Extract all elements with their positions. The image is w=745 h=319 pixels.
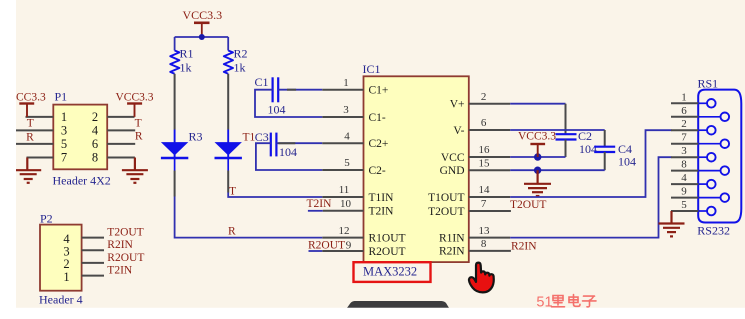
svg-text:7: 7 — [61, 151, 67, 165]
svg-text:104: 104 — [279, 145, 297, 159]
highlight box MAX3232 — [354, 262, 431, 282]
svg-text:5: 5 — [344, 157, 350, 169]
svg-text:9: 9 — [346, 239, 352, 251]
wire C1 left to pin3 — [255, 90, 322, 117]
svg-text:R1IN: R1IN — [439, 232, 465, 244]
svg-text:T: T — [135, 118, 142, 130]
svg-text:R: R — [135, 131, 143, 143]
svg-text:MAX3232: MAX3232 — [363, 264, 417, 278]
svg-text:14: 14 — [479, 184, 491, 196]
svg-text:104: 104 — [618, 155, 636, 169]
svg-text:V+: V+ — [450, 99, 465, 111]
wire top rail — [175, 36, 229, 38]
wire C2 top pin — [565, 104, 567, 135]
svg-text:13: 13 — [479, 225, 491, 237]
svg-text:16: 16 — [479, 144, 491, 156]
svg-text:RS232: RS232 — [697, 224, 730, 238]
IC IC1 MAX3232 body — [363, 62, 469, 262]
wire C4 bottom pin — [604, 152, 606, 170]
P2 inner pin numbers — [63, 232, 70, 284]
svg-text:V-: V- — [453, 125, 464, 137]
svg-text:7: 7 — [681, 132, 687, 144]
svg-text:1k: 1k — [234, 60, 246, 74]
svg-text:VCC: VCC — [441, 152, 465, 164]
diode D1 cathode pin — [174, 171, 176, 197]
IC1 left pin names — [369, 85, 406, 258]
svg-text:R2: R2 — [234, 47, 248, 61]
svg-text:8: 8 — [681, 159, 687, 171]
capacitor C4 — [594, 142, 636, 169]
power VCC3.3 left (clipped) — [16, 91, 46, 117]
svg-text:T2IN: T2IN — [369, 206, 395, 218]
watermark text 51里电子 — [536, 295, 596, 311]
RS1 pin circles right column — [721, 113, 730, 202]
svg-text:1: 1 — [63, 270, 69, 284]
svg-text:C2-: C2- — [369, 165, 386, 177]
svg-text:1: 1 — [343, 77, 349, 89]
svg-text:R2IN: R2IN — [511, 240, 537, 252]
svg-text:C2+: C2+ — [369, 138, 389, 150]
capacitor C2 — [556, 129, 598, 156]
svg-text:R: R — [228, 226, 236, 238]
RS1 pin connect lines — [698, 103, 720, 211]
P2 pin wires — [82, 238, 104, 276]
svg-text:C3: C3 — [255, 130, 269, 144]
svg-text:VCC3.3: VCC3.3 — [182, 8, 222, 22]
connector RS1 DB9 body — [697, 77, 741, 238]
diode D2 cathode pin — [227, 171, 229, 193]
svg-text:10: 10 — [340, 198, 352, 210]
svg-text:1: 1 — [681, 91, 687, 103]
svg-text:3: 3 — [681, 145, 687, 157]
svg-text:R1: R1 — [180, 47, 194, 61]
svg-text:R3: R3 — [189, 129, 203, 143]
RS1 pin numbers — [681, 91, 687, 211]
svg-text:6: 6 — [481, 117, 487, 129]
svg-text:104: 104 — [268, 102, 286, 116]
svg-text:T2IN: T2IN — [307, 198, 333, 210]
svg-text:4: 4 — [344, 130, 350, 142]
wire C2 bottom pin — [565, 140, 567, 158]
RS1 pin circles left column — [707, 99, 716, 215]
svg-text:T1OUT: T1OUT — [428, 192, 464, 204]
ground symbol P1-right — [122, 158, 148, 183]
power VCC3.3 P1-right — [116, 91, 154, 117]
ground symbol RS1 — [659, 211, 685, 236]
white window edge left — [0, 0, 16, 319]
P1 left pin wires — [4, 117, 54, 158]
svg-text:RS1: RS1 — [698, 77, 719, 91]
svg-text:6: 6 — [92, 137, 98, 151]
svg-text:T: T — [229, 186, 236, 198]
svg-text:3: 3 — [343, 104, 349, 116]
svg-text:R2OUT: R2OUT — [369, 246, 406, 258]
svg-text:R2OUT: R2OUT — [308, 240, 345, 252]
wire net T to IC pin11 — [228, 193, 322, 198]
wire net R to IC pin12 — [175, 197, 323, 238]
RS1 pin stubs — [671, 103, 699, 211]
svg-text:GND: GND — [440, 165, 465, 177]
connector P2 body — [39, 212, 83, 307]
svg-text:12: 12 — [339, 225, 350, 237]
IC1 right pin stubs — [469, 104, 511, 251]
ground symbol P1-left — [15, 158, 41, 183]
svg-text:T2OUT: T2OUT — [107, 227, 143, 239]
svg-text:R2IN: R2IN — [439, 246, 465, 258]
svg-text:4: 4 — [681, 172, 687, 184]
svg-text:C1+: C1+ — [369, 85, 389, 97]
diode D2 cathode stub — [227, 158, 229, 171]
diode D1 cathode stub — [174, 158, 176, 171]
svg-text:R2OUT: R2OUT — [107, 252, 144, 264]
svg-text:8: 8 — [481, 238, 487, 250]
wire T2IN stub — [308, 210, 323, 212]
connector P1 body — [53, 90, 111, 188]
power VCC3.3 right — [518, 130, 556, 157]
resistor R2 — [224, 47, 248, 75]
svg-text:T2OUT: T2OUT — [428, 206, 464, 218]
svg-text:VCC3.3: VCC3.3 — [518, 130, 556, 142]
IC1 left pin numbers — [339, 77, 352, 252]
svg-text:P2: P2 — [40, 212, 53, 226]
wire R2 top stub — [227, 37, 229, 51]
svg-text:3: 3 — [61, 124, 67, 138]
svg-text:Header 4: Header 4 — [39, 292, 83, 306]
power VCC3.3 top — [182, 8, 222, 37]
diode D2 — [215, 130, 242, 159]
svg-text:C1: C1 — [255, 75, 269, 89]
svg-text:7: 7 — [481, 198, 487, 210]
wire R1 top stub — [174, 37, 176, 51]
svg-text:T: T — [27, 117, 34, 129]
wire R2OUT stub — [309, 250, 323, 252]
white band bottom — [0, 308, 745, 319]
P1 right pin wires — [107, 117, 135, 158]
ground symbol mid — [524, 170, 551, 196]
resistor R1 — [170, 47, 193, 75]
svg-text:2: 2 — [92, 110, 98, 124]
IC1 right pin names — [428, 99, 465, 258]
svg-text:C1-: C1- — [369, 112, 386, 124]
svg-text:T1IN: T1IN — [369, 192, 395, 204]
dark taskbar fragment — [347, 301, 449, 308]
svg-text:CC3.3: CC3.3 — [16, 91, 46, 103]
wire pin6 to C4 — [510, 129, 605, 131]
wire T1OUT to RS1 pin2 — [510, 130, 671, 197]
wire R1 to D1 — [174, 74, 176, 130]
wire C3 right to pin4 — [276, 142, 322, 144]
svg-text:IC1: IC1 — [363, 62, 381, 76]
wire R1IN to RS1 pin3 — [510, 157, 671, 237]
svg-text:Header 4X2: Header 4X2 — [53, 173, 111, 187]
capacitor C1 — [255, 75, 286, 117]
diode D1 (label R3) — [161, 129, 203, 158]
capacitor C3 right pin — [278, 142, 295, 144]
hand cursor — [469, 263, 494, 293]
svg-text:4: 4 — [92, 124, 99, 138]
wire pin2 to C2 — [510, 103, 565, 105]
svg-text:R: R — [26, 132, 34, 144]
svg-text:9: 9 — [681, 186, 687, 198]
junction top rail — [199, 34, 205, 40]
capacitor C1 right pin — [287, 89, 296, 91]
svg-text:R2IN: R2IN — [107, 239, 133, 251]
wire pin15 GND rail — [510, 169, 605, 171]
svg-text:VCC3.3: VCC3.3 — [116, 91, 154, 103]
wire R2 to D2 — [227, 74, 229, 130]
wire pin16 VCC rail — [510, 156, 565, 158]
svg-text:1k: 1k — [180, 60, 192, 74]
svg-text:T2IN: T2IN — [107, 265, 133, 277]
svg-text:104: 104 — [579, 142, 597, 156]
wire C3 left to pin5 — [256, 143, 322, 170]
wire C4 top pin — [604, 130, 606, 147]
svg-text:T2OUT: T2OUT — [510, 199, 546, 211]
svg-text:8: 8 — [92, 151, 98, 165]
svg-text:1: 1 — [61, 110, 67, 124]
svg-text:T1: T1 — [243, 132, 256, 144]
capacitor C3 — [255, 130, 297, 159]
svg-text:6: 6 — [681, 105, 687, 117]
svg-text:2: 2 — [481, 91, 487, 103]
svg-text:2: 2 — [681, 118, 687, 130]
IC1 left pin stubs — [322, 90, 363, 251]
junction VCC rail — [534, 153, 541, 160]
IC1 right pin numbers — [479, 91, 491, 250]
svg-text:P1: P1 — [55, 90, 68, 104]
P1 inner pin numbers — [61, 110, 99, 165]
svg-text:R1OUT: R1OUT — [369, 232, 406, 244]
svg-text:15: 15 — [479, 157, 491, 169]
svg-text:5: 5 — [681, 199, 687, 211]
wire C1 right to pin1 — [278, 89, 322, 91]
svg-text:11: 11 — [339, 184, 350, 196]
junction GND rail — [534, 167, 541, 174]
svg-text:5: 5 — [61, 137, 67, 151]
